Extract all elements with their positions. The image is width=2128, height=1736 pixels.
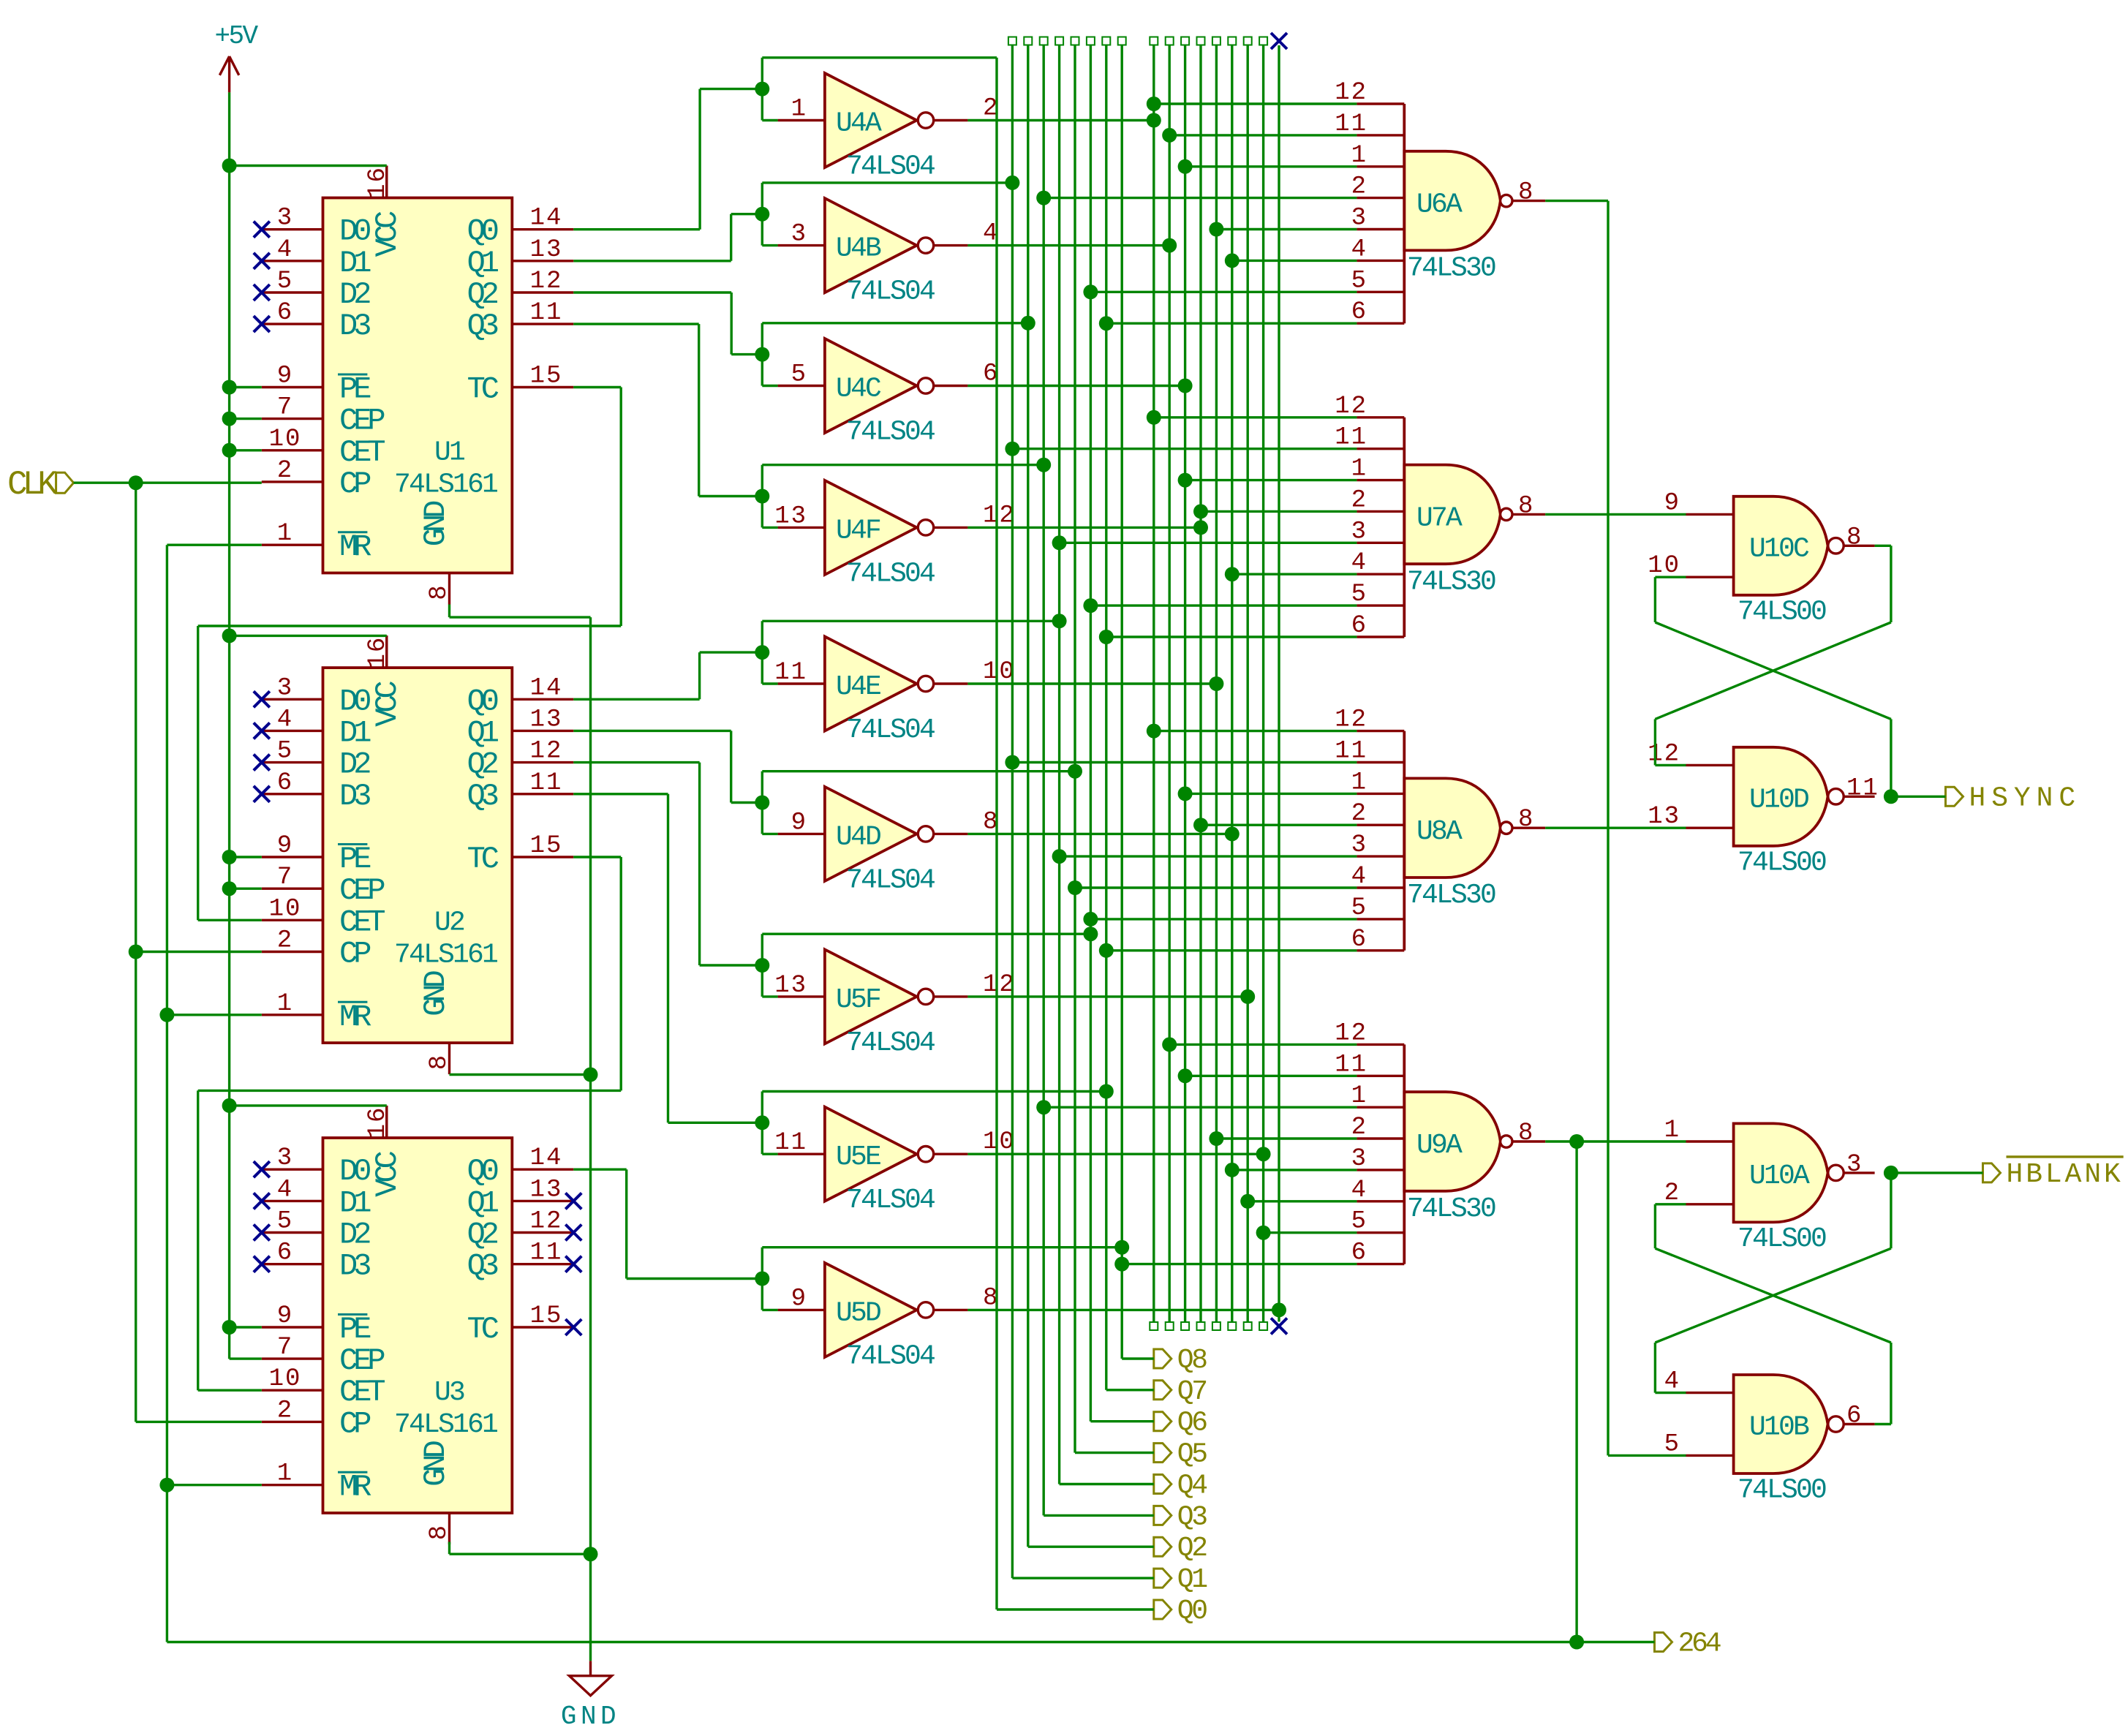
svg-text:13: 13 [530, 706, 563, 733]
wire to label Q8 [1122, 1357, 1154, 1359]
junction U9A out / 264 [1569, 1134, 1584, 1149]
global label Q1 [1154, 1569, 1171, 1588]
svg-text:U3: U3 [434, 1377, 464, 1408]
svg-text:74LS30: 74LS30 [1407, 566, 1495, 597]
svg-text:D2: D2 [339, 1218, 370, 1253]
gate U8A 74LS30 [1404, 778, 1501, 878]
U6A pin 4 [1357, 260, 1404, 262]
U10D pin 13 [1686, 826, 1734, 829]
U8A output pin 8 [1512, 826, 1545, 829]
svg-text:10: 10 [269, 1365, 302, 1393]
no-connect U3.D3 [254, 1256, 270, 1272]
junction Q6 tie [1083, 927, 1098, 941]
wire CLK to U1 CP [74, 482, 262, 484]
power symbol +5V [219, 56, 238, 92]
junction /Q7 tie [1256, 1147, 1271, 1161]
svg-text:Q2: Q2 [467, 1218, 498, 1253]
junction U9A input tap [1178, 1068, 1193, 1083]
inverter U4D 74LS04 [825, 787, 917, 881]
svg-text:74LS00: 74LS00 [1738, 596, 1826, 627]
wire to U2 CET [198, 919, 262, 921]
junction U4B input [755, 207, 769, 222]
svg-text:PE: PE [339, 1312, 371, 1347]
svg-text:U1: U1 [434, 437, 464, 469]
svg-text:CET: CET [339, 435, 385, 470]
junction CLK rail [129, 945, 143, 959]
U4B input pin 3 [778, 244, 825, 246]
bus vertical Q8 [1118, 37, 1126, 45]
svg-text:4: 4 [277, 706, 293, 733]
svg-text:14: 14 [530, 205, 563, 233]
U9A pin 11 [1357, 1075, 1404, 1077]
junction CLK rail [129, 475, 143, 490]
wire U1 MR [167, 544, 261, 546]
junction U6A input tap [1209, 222, 1223, 237]
svg-text:3: 3 [277, 205, 293, 233]
U2 pin 11 Q3 [512, 793, 573, 795]
gate U9A 74LS30 [1404, 1092, 1501, 1191]
wire U2 Q1 (Q5) [573, 730, 731, 732]
svg-text:74LS04: 74LS04 [846, 558, 935, 589]
global label Q5 [1154, 1443, 1171, 1463]
junction U4D input [755, 796, 769, 810]
svg-text:Q0: Q0 [1177, 1596, 1207, 1627]
U2 pin 7 CEP [262, 887, 323, 889]
svg-text:13: 13 [774, 972, 807, 1000]
global label Q8 [1154, 1349, 1171, 1368]
svg-text:Q2: Q2 [467, 277, 498, 312]
svg-text:74LS04: 74LS04 [846, 1340, 935, 1372]
bus vertical /Q2 [1181, 37, 1189, 45]
inverter U5F 74LS04 [825, 949, 917, 1044]
svg-text:14: 14 [530, 1144, 563, 1172]
junction /Q0 tie [1147, 113, 1161, 128]
wire U2 Q2 (Q6) [573, 761, 699, 763]
gate U10C 74LS00 [1734, 497, 1828, 595]
svg-text:D0: D0 [339, 214, 370, 249]
U2 pin 3 D0 [262, 698, 323, 701]
U10A pin 1 [1686, 1140, 1734, 1142]
svg-text:4: 4 [277, 1176, 293, 1204]
U1 pin 12 Q2 [512, 291, 573, 293]
U9A pin 2 [1357, 1137, 1404, 1139]
no-connect U3.D0 [254, 1161, 270, 1177]
U2 pin 14 Q0 [512, 698, 573, 701]
wire CLK rail [135, 483, 137, 1422]
junction U6A input tap [1083, 284, 1098, 299]
U1 pin 3 D0 [262, 228, 323, 230]
junction U8A input tap [1099, 943, 1114, 958]
U10A pin 2 [1686, 1203, 1734, 1205]
bus vertical Q7 [1102, 37, 1110, 45]
svg-text:7: 7 [277, 1334, 293, 1362]
gate U10D 74LS00 [1734, 747, 1828, 846]
svg-text:U5E: U5E [836, 1141, 880, 1173]
U10B pin 5 [1686, 1454, 1734, 1457]
svg-text:U10B: U10B [1749, 1412, 1809, 1443]
wire to label Q7 [1106, 1389, 1154, 1391]
junction U9A input tap [1209, 1131, 1223, 1146]
U5E input pin 11 [778, 1152, 825, 1155]
wire U2 Q3 (Q7) [573, 793, 668, 795]
U1 pin 7 CEP [262, 418, 323, 420]
junction /Q3 tie [1193, 520, 1208, 535]
junction U9A input tap [1162, 1037, 1177, 1052]
no-connect U3.D1 [254, 1193, 270, 1209]
U1 pin 5 D2 [262, 291, 323, 293]
junction U7A input tap [1099, 630, 1114, 644]
wire 264 drop [1575, 1141, 1577, 1642]
svg-text:8: 8 [1846, 524, 1863, 551]
no-connect U1.D1 [254, 253, 270, 269]
U1 pin 8 GND [448, 573, 450, 605]
svg-text:5: 5 [791, 361, 807, 389]
svg-text:U4E: U4E [836, 671, 880, 703]
junction U6A input tap [1162, 128, 1177, 143]
global label Q2 [1154, 1537, 1171, 1556]
svg-text:74LS04: 74LS04 [846, 1027, 935, 1059]
U4D output pin 8 [934, 833, 968, 835]
U9A pin 3 [1357, 1169, 1404, 1171]
svg-text:6: 6 [277, 1239, 293, 1267]
junction U8A input tap [1005, 755, 1019, 770]
svg-text:12: 12 [530, 738, 563, 766]
junction U6A input tap [1099, 316, 1114, 331]
bus vertical Q4 [1055, 37, 1063, 45]
svg-text:VCC: VCC [370, 211, 405, 257]
svg-text:CP: CP [339, 1406, 370, 1441]
junction /Q4 tie [1209, 676, 1223, 691]
junction HBLANK [1884, 1166, 1898, 1180]
svg-text:Q1: Q1 [467, 1185, 499, 1220]
svg-text:U4D: U4D [836, 821, 880, 853]
wire U3 MR [167, 1484, 261, 1486]
svg-text:74LS04: 74LS04 [846, 417, 935, 448]
junction U9A input tap [1036, 1100, 1051, 1114]
U1 pin 14 Q0 [512, 228, 573, 230]
U1 pin 13 Q1 [512, 260, 573, 262]
junction U4E input [755, 645, 769, 660]
junction U7A input tap [1225, 567, 1240, 581]
junction MR rail [159, 1478, 174, 1492]
wire U2 GND to rail [450, 1073, 591, 1076]
svg-text:6: 6 [1846, 1403, 1863, 1430]
svg-text:D2: D2 [339, 747, 370, 782]
bus vertical Q3 [1040, 37, 1048, 45]
bus vertical /Q3 [1197, 37, 1205, 45]
svg-text:74LS30: 74LS30 [1407, 1193, 1495, 1225]
wire to label Q4 [1060, 1483, 1154, 1485]
svg-text:U10A: U10A [1749, 1161, 1810, 1192]
wire MR rail [166, 545, 168, 1642]
wire +5V to U3 PE [230, 1326, 262, 1328]
svg-text:U9A: U9A [1416, 1130, 1463, 1161]
svg-text:U6A: U6A [1416, 189, 1463, 221]
svg-text:GND: GND [561, 1702, 620, 1732]
svg-text:12: 12 [983, 502, 1016, 529]
wire +5V to U1 VCC [230, 165, 387, 167]
junction U7A input tap [1005, 442, 1019, 456]
svg-text:Q4: Q4 [1177, 1471, 1207, 1502]
U1 pin 1 MR [262, 544, 323, 546]
svg-text:D1: D1 [339, 1185, 371, 1220]
U10D output pin 11 [1844, 796, 1874, 798]
junction +5V rail [222, 881, 237, 896]
svg-text:4: 4 [277, 236, 293, 264]
U7A pin 4 [1357, 573, 1404, 575]
U5D output pin 8 [934, 1309, 968, 1311]
U6A pin 11 [1357, 134, 1404, 136]
svg-text:U10C: U10C [1749, 533, 1809, 565]
bus vertical Q1 [1008, 37, 1016, 45]
U1 pin 4 D1 [262, 260, 323, 262]
junction /Q5 tie [1225, 826, 1240, 841]
no-connect U3.Q1 [565, 1193, 581, 1209]
svg-text:VCC: VCC [370, 682, 405, 727]
svg-text:Q3: Q3 [467, 309, 498, 344]
wire +5V rail [228, 92, 230, 1359]
junction U8A input tap [1083, 912, 1098, 927]
U5D input pin 9 [778, 1309, 825, 1311]
svg-text:U4A: U4A [836, 108, 882, 140]
junction U7A input tap [1083, 598, 1098, 613]
junction HSYNC [1884, 789, 1898, 804]
wire CLK to U3 CP [136, 1421, 262, 1423]
gate U6A 74LS30 [1404, 151, 1501, 251]
U9A pin 1 [1357, 1106, 1404, 1108]
svg-text:Q6: Q6 [1177, 1408, 1207, 1439]
junction Q4 tie [1052, 614, 1067, 628]
svg-text:8: 8 [426, 584, 453, 600]
U1 pin 11 Q3 [512, 322, 573, 325]
U3 pin 13 Q1 [512, 1200, 573, 1202]
svg-text:8: 8 [1518, 1120, 1534, 1147]
svg-text:GND: GND [418, 1441, 453, 1486]
U10A output pin 3 [1844, 1171, 1874, 1174]
wire to label Q6 [1090, 1420, 1153, 1422]
wire to U3 CET [198, 1389, 262, 1391]
U3 pin 15 TC [512, 1326, 573, 1328]
U7A pin 2 [1357, 510, 1404, 513]
wire +5V to U3 CEP [230, 1357, 262, 1359]
U1 pin 16 VCC [385, 166, 388, 198]
junction U6A input tap [1178, 159, 1193, 174]
svg-text:74LS00: 74LS00 [1738, 1475, 1826, 1506]
svg-text:12: 12 [530, 268, 563, 295]
U3 pin 16 VCC [385, 1106, 388, 1138]
wire U2 Q0 (Q4) [573, 698, 699, 701]
wire U1 Q3 [573, 322, 698, 325]
wire U3 GND to rail [450, 1552, 591, 1555]
junction GND rail [584, 1068, 598, 1082]
U3 pin 11 Q3 [512, 1263, 573, 1265]
svg-text:CLK: CLK [7, 466, 58, 504]
svg-text:VCC: VCC [370, 1151, 405, 1196]
U9A pin 5 [1357, 1231, 1404, 1234]
svg-text:U10D: U10D [1749, 784, 1808, 815]
U2 pin 2 CP [262, 951, 323, 953]
junction Q7 tie [1099, 1084, 1114, 1099]
junction +5V rail [222, 628, 237, 643]
svg-text:GND: GND [418, 501, 453, 546]
svg-text:U5D: U5D [836, 1297, 880, 1329]
U2 pin 12 Q2 [512, 761, 573, 763]
svg-text:U8A: U8A [1416, 816, 1463, 848]
junction U4C input [755, 347, 769, 362]
svg-text:8: 8 [1518, 179, 1534, 207]
svg-text:6: 6 [277, 769, 293, 797]
U8A pin 3 [1357, 855, 1404, 857]
svg-text:3: 3 [277, 1144, 293, 1172]
U3 pin 14 Q0 [512, 1168, 573, 1170]
svg-text:74LS04: 74LS04 [846, 864, 935, 896]
junction GND rail [584, 1547, 598, 1561]
wire U2 TC [573, 856, 621, 858]
svg-text:2: 2 [277, 1397, 293, 1424]
bus vertical Q0 [995, 58, 997, 1609]
svg-text:13: 13 [774, 502, 807, 530]
svg-text:15: 15 [530, 363, 563, 390]
svg-text:1: 1 [277, 520, 293, 548]
gate U10B 74LS00 [1734, 1375, 1828, 1473]
global label HBLANK (active low) [1983, 1163, 2001, 1182]
U2 pin 15 TC [512, 856, 573, 858]
svg-text:2: 2 [277, 457, 293, 485]
svg-text:74LS04: 74LS04 [846, 276, 935, 308]
svg-text:D1: D1 [339, 246, 371, 281]
svg-text:9: 9 [791, 809, 807, 837]
wire to label Q2 [1028, 1545, 1154, 1547]
U2 pin 5 D2 [262, 761, 323, 763]
wire U3 Q0 (Q8) [573, 1168, 626, 1170]
U7A output pin 8 [1512, 513, 1545, 516]
junction +5V rail [222, 380, 237, 395]
svg-text:3: 3 [1846, 1151, 1863, 1179]
U2 pin 4 D1 [262, 730, 323, 732]
svg-text:5: 5 [277, 1208, 293, 1236]
U3 pin 3 D0 [262, 1168, 323, 1170]
svg-text:Q0: Q0 [467, 684, 498, 719]
wire +5V to U2 PE [230, 856, 262, 858]
svg-text:CEP: CEP [339, 404, 384, 439]
svg-text:Q2: Q2 [467, 747, 498, 782]
U5E output pin 10 [934, 1152, 968, 1155]
U2 pin 9 PE [262, 856, 323, 858]
U5F input pin 13 [778, 995, 825, 997]
U6A output pin 8 [1512, 200, 1545, 202]
U7A pin 3 [1357, 542, 1404, 544]
svg-text:Q3: Q3 [467, 779, 498, 814]
svg-text:D0: D0 [339, 1154, 370, 1189]
svg-text:Q5: Q5 [1177, 1439, 1207, 1471]
svg-text:CP: CP [339, 467, 370, 502]
no-connect U3.D2 [254, 1225, 270, 1241]
svg-text:13: 13 [530, 236, 563, 264]
svg-text:3: 3 [791, 221, 807, 249]
svg-text:TC: TC [467, 842, 499, 877]
bus vertical /Q0 [1150, 37, 1158, 45]
junction MR rail [159, 1008, 174, 1022]
svg-text:CEP: CEP [339, 873, 384, 908]
svg-text:CET: CET [339, 905, 385, 940]
svg-text:CEP: CEP [339, 1343, 384, 1378]
junction +5V rail [222, 850, 237, 864]
U6A pin 6 [1357, 322, 1404, 325]
svg-text:8: 8 [426, 1524, 453, 1540]
svg-text:11: 11 [530, 299, 563, 327]
junction U9A input tap [1256, 1226, 1271, 1240]
junction U8A input tap [1193, 818, 1208, 832]
svg-text:9: 9 [277, 832, 293, 860]
U3 pin 1 MR [262, 1484, 323, 1486]
U10B pin 4 [1686, 1392, 1734, 1394]
svg-text:74LS161: 74LS161 [394, 469, 497, 501]
svg-text:7: 7 [277, 394, 293, 422]
U8A pin 12 [1357, 730, 1404, 732]
svg-text:D0: D0 [339, 684, 370, 719]
svg-text:Q3: Q3 [467, 1249, 498, 1284]
svg-text:TC: TC [467, 1312, 499, 1347]
wire U1 TC [573, 386, 621, 388]
svg-text:TC: TC [467, 372, 499, 407]
U2 pin 1 MR [262, 1014, 323, 1016]
svg-text:D2: D2 [339, 277, 370, 312]
svg-text:1: 1 [277, 1460, 293, 1488]
global label Q0 [1154, 1600, 1171, 1619]
U8A pin 6 [1357, 949, 1404, 951]
svg-text:HBLANK: HBLANK [2007, 1159, 2124, 1190]
inverter U4E 74LS04 [825, 637, 917, 731]
wire U1 Q1 [573, 260, 731, 262]
svg-text:Q7: Q7 [1177, 1376, 1207, 1408]
U4E output pin 10 [934, 682, 968, 684]
junction U6A input tap [1036, 191, 1051, 205]
inverter U4B 74LS04 [825, 198, 917, 293]
svg-text:8: 8 [1518, 492, 1534, 520]
no-connect U1.D0 [254, 222, 270, 238]
U1 pin 2 CP [262, 480, 323, 483]
U7A pin 5 [1357, 604, 1404, 606]
U10C output pin 8 [1844, 545, 1874, 547]
U6A pin 12 [1357, 102, 1404, 105]
svg-text:D3: D3 [339, 1249, 370, 1284]
U7A pin 1 [1357, 479, 1404, 481]
U4B output pin 4 [934, 244, 968, 246]
junction /Q2 tie [1178, 379, 1193, 393]
U4C output pin 6 [934, 385, 968, 387]
svg-text:U7A: U7A [1416, 502, 1463, 534]
bus vertical Q6 [1087, 37, 1095, 45]
svg-text:Q0: Q0 [467, 1154, 498, 1189]
U7A pin 12 [1357, 416, 1404, 418]
U10C pin 9 [1686, 513, 1734, 516]
svg-text:3: 3 [277, 674, 293, 702]
U3 pin 2 CP [262, 1421, 323, 1423]
junction /Q6 tie [1240, 989, 1255, 1004]
U6A pin 2 [1357, 197, 1404, 199]
svg-text:6: 6 [277, 299, 293, 327]
junction +5V rail [222, 159, 237, 173]
svg-text:10: 10 [269, 426, 302, 453]
svg-text:74LS161: 74LS161 [394, 1409, 497, 1441]
junction Q1 tie [1005, 176, 1019, 190]
svg-text:14: 14 [530, 674, 563, 702]
svg-text:Q3: Q3 [1177, 1501, 1207, 1533]
junction Q2 tie [1021, 316, 1035, 331]
no-connect U2.D3 [254, 786, 270, 802]
U3 pin 6 D3 [262, 1263, 323, 1265]
svg-text:13: 13 [530, 1176, 563, 1204]
